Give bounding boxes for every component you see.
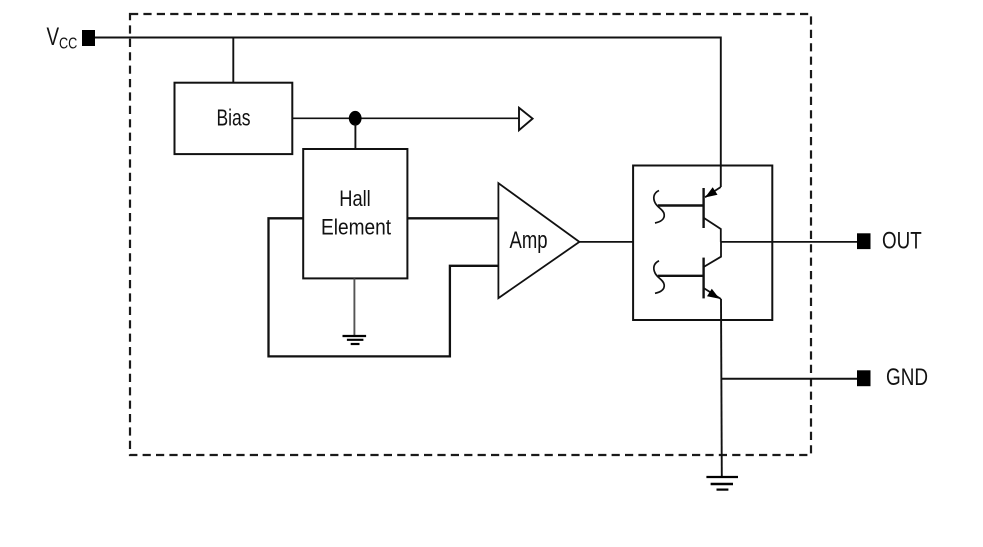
ground (output stage) xyxy=(706,477,738,490)
junction dot xyxy=(349,111,362,126)
block output stage xyxy=(633,166,772,321)
wire GND xyxy=(722,378,857,380)
IC boundary (dashed) xyxy=(130,14,811,455)
wire emitter to ground xyxy=(720,299,723,477)
arrow Q2 emitter (points away from base) xyxy=(707,289,720,299)
wire Bias supply xyxy=(232,38,234,84)
wire Hall left loop to Amp - input xyxy=(269,218,499,356)
svg-text:Bias: Bias xyxy=(217,105,251,131)
pin pad GND xyxy=(857,370,871,386)
wire Hall output to Amp + input xyxy=(407,217,498,219)
arrowhead (bias reference out) xyxy=(519,108,533,130)
svg-text:Element: Element xyxy=(321,215,391,240)
transistor Q1 (upper, PNP) xyxy=(658,166,721,242)
svg-text:GND: GND xyxy=(886,364,928,391)
squiggle (lower base) xyxy=(654,261,664,294)
svg-text:Hall: Hall xyxy=(339,186,371,211)
op-amp Amp xyxy=(498,183,579,298)
wire VCC rail xyxy=(95,38,721,166)
wire Bias output xyxy=(292,117,519,119)
pin pad VCC xyxy=(82,30,95,46)
wire Hall supply xyxy=(354,124,356,149)
pin pad OUT xyxy=(857,233,871,249)
transistor Q2 (lower, NPN) xyxy=(658,242,721,299)
svg-text:Amp: Amp xyxy=(510,227,548,254)
wire Hall ground stub xyxy=(353,278,355,336)
svg-text:CC: CC xyxy=(59,35,77,52)
wire Amp output xyxy=(579,241,633,243)
wire OUT xyxy=(721,241,857,243)
svg-text:V: V xyxy=(47,23,60,51)
label VCC xyxy=(47,23,78,52)
block Bias xyxy=(175,83,293,154)
arrow Q1 emitter (points into base) xyxy=(705,187,718,197)
squiggle (upper base) xyxy=(654,191,664,224)
block Hall Element xyxy=(303,149,407,278)
svg-text:OUT: OUT xyxy=(882,227,922,254)
label Hall Element xyxy=(321,186,391,240)
ground (Hall element) xyxy=(343,336,367,344)
